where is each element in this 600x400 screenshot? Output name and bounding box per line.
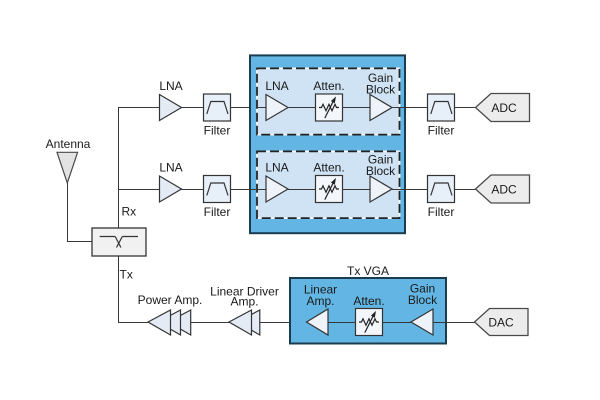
filter F3 row2: [204, 176, 231, 203]
wire attenuator to gain Tx: [383, 322, 412, 324]
svg-text:Atten.: Atten.: [313, 79, 344, 93]
wire driver to Tx VGA: [260, 322, 307, 324]
dashed VGA channel 2: [257, 151, 400, 218]
wire LNA to attenuator ch1: [288, 107, 316, 109]
wire filter to VGA row2: [231, 189, 267, 191]
filter F2 row1 right: [428, 94, 455, 121]
svg-text:Atten.: Atten.: [313, 161, 344, 175]
wire filter to ADC row2: [455, 189, 476, 191]
svg-text:Amp.: Amp.: [230, 295, 258, 309]
svg-text:LNA: LNA: [265, 79, 288, 93]
wire Rx branch 2: [119, 189, 160, 191]
svg-text:Tx VGA: Tx VGA: [347, 264, 389, 278]
wire attenuator to gain ch2: [343, 189, 371, 191]
svg-text:LNA: LNA: [265, 161, 288, 175]
wire Rx trunk: [119, 108, 160, 229]
wire inside ch2: [258, 189, 266, 191]
Rx VGA block: [250, 55, 405, 233]
svg-text:Filter: Filter: [428, 124, 455, 138]
DAC: [475, 309, 529, 336]
wire filter to VGA row1: [231, 107, 267, 109]
amplifier LNA row2: [160, 176, 182, 202]
svg-text:Filter: Filter: [428, 205, 455, 219]
svg-text:Power Amp.: Power Amp.: [138, 293, 203, 307]
attenuator Tx: [356, 309, 383, 336]
wire Tx VGA to DAC: [446, 322, 475, 324]
svg-text:ADC: ADC: [491, 183, 517, 197]
svg-text:Filter: Filter: [204, 124, 231, 138]
wire filter to ADC row1: [455, 107, 476, 109]
wire power amp to driver: [191, 322, 229, 324]
wire row2 filter to LNA: [182, 189, 204, 191]
wire linear amp to attenuator Tx: [328, 322, 356, 324]
switch S1: [92, 228, 146, 256]
svg-text:Filter: Filter: [204, 205, 231, 219]
ADC row2: [476, 175, 530, 203]
wire inside ch1: [258, 107, 266, 109]
amplifier gain block Tx: [411, 309, 433, 335]
svg-text:Atten.: Atten.: [353, 294, 384, 308]
ADC row1: [476, 94, 530, 122]
filter F4 row2 right: [428, 176, 455, 203]
svg-text:Amp.: Amp.: [306, 294, 334, 308]
amplifier power amp: [148, 310, 191, 335]
amplifier gain block ch1: [370, 95, 392, 121]
wire gain to filter row1: [392, 107, 428, 109]
Tx VGA block: [290, 278, 446, 344]
svg-text:Block: Block: [408, 293, 438, 307]
amplifier linear amp Tx: [307, 309, 329, 335]
wire gain to VGA edge Tx: [433, 322, 446, 324]
wire Tx trunk: [119, 256, 149, 323]
antenna: [57, 152, 78, 183]
amplifier gain block ch2: [370, 176, 392, 202]
svg-text:LNA: LNA: [159, 161, 182, 175]
wire attenuator to gain ch1: [343, 107, 371, 109]
svg-text:ADC: ADC: [491, 101, 517, 115]
amplifier LNA row1: [160, 95, 182, 121]
wire antenna to switch: [68, 183, 93, 242]
amplifier LNA ch2: [266, 176, 288, 202]
attenuator ch2: [316, 176, 343, 203]
wire gain to filter row2: [392, 189, 428, 191]
wire LNA to attenuator ch2: [288, 189, 316, 191]
svg-text:Rx: Rx: [122, 204, 137, 218]
svg-text:LNA: LNA: [159, 79, 182, 93]
amplifier linear driver: [229, 310, 260, 335]
svg-text:Antenna: Antenna: [46, 137, 91, 151]
dashed VGA channel 1: [257, 68, 400, 134]
svg-text:DAC: DAC: [488, 316, 514, 330]
attenuator ch1: [316, 94, 343, 121]
svg-text:Tx: Tx: [120, 268, 133, 282]
filter F1 row1: [204, 94, 231, 121]
amplifier LNA ch1: [266, 95, 288, 121]
wire LNA to filter row1: [182, 107, 204, 109]
